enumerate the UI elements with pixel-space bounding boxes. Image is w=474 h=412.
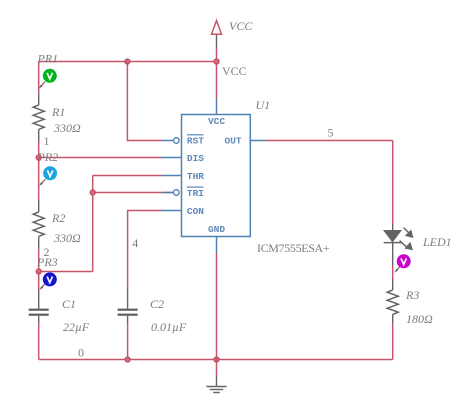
svg-text:VCC: VCC <box>208 116 225 127</box>
svg-text:ICM7555ESA+: ICM7555ESA+ <box>257 241 330 255</box>
svg-text:PR2: PR2 <box>37 150 59 164</box>
svg-text:LED1: LED1 <box>422 235 452 249</box>
junction at PR2 <box>36 155 41 160</box>
svg-text:U1: U1 <box>256 98 271 112</box>
junction GND at rail <box>214 357 219 362</box>
svg-text:OUT: OUT <box>225 136 242 147</box>
wire rail to ground <box>216 360 218 376</box>
wire PR3-C1 <box>38 272 40 290</box>
wire THR horizontal upper <box>93 175 162 177</box>
wire left rail R2-PR3 <box>38 249 40 271</box>
pin stub CON <box>162 210 182 212</box>
svg-text:TRI: TRI <box>187 188 204 199</box>
svg-text:THR: THR <box>187 171 204 182</box>
pin stub OUT <box>250 140 266 142</box>
svg-text:4: 4 <box>132 236 138 250</box>
wire LED-R3 <box>392 265 394 279</box>
svg-text:1: 1 <box>44 134 50 148</box>
wire RST branch <box>127 62 162 141</box>
probe PR2 <box>37 150 59 186</box>
wire left rail upper <box>38 62 40 94</box>
wire left rail PR2-R2 <box>38 158 40 201</box>
svg-text:RST: RST <box>187 136 204 147</box>
pin stub TRI with bubble <box>162 192 173 194</box>
IC U1 ICM7555ESA+ <box>162 98 330 255</box>
svg-text:5: 5 <box>328 126 334 140</box>
pin stub VCC <box>216 98 218 115</box>
probe PR4 on LED <box>395 254 411 272</box>
svg-text:R3: R3 <box>405 288 419 302</box>
pin stub THR <box>162 175 182 177</box>
LED LED1 <box>384 224 452 265</box>
power symbol VCC <box>212 19 254 48</box>
svg-text:180Ω: 180Ω <box>406 312 433 326</box>
svg-text:330Ω: 330Ω <box>53 231 81 245</box>
resistor R2 <box>33 201 81 250</box>
svg-text:PR1: PR1 <box>37 52 59 66</box>
wire VCC vertical <box>216 48 218 99</box>
svg-text:GND: GND <box>208 224 225 235</box>
wire DIS <box>39 157 162 159</box>
svg-text:C1: C1 <box>62 297 76 311</box>
emission arrow 1 <box>404 228 410 234</box>
svg-text:DIS: DIS <box>187 153 204 164</box>
wire top rail <box>39 61 217 63</box>
pin stub RST with bubble <box>162 140 173 142</box>
junction C2 at rail <box>125 357 130 362</box>
capacitor C1 <box>29 290 90 335</box>
probe PR1 <box>37 52 59 89</box>
svg-text:R1: R1 <box>51 105 65 119</box>
capacitor C2 <box>118 289 187 334</box>
pin stub DIS <box>162 157 182 159</box>
emission arrow 2 <box>400 241 406 247</box>
resistor R3 <box>387 279 433 326</box>
wire THR horizontal lower <box>39 271 93 273</box>
svg-text:0.01µF: 0.01µF <box>151 320 187 334</box>
junction at PR3 <box>36 269 41 274</box>
wire C2-rail <box>127 323 129 359</box>
junction at VCC <box>214 59 219 64</box>
svg-text:22µF: 22µF <box>63 320 90 334</box>
wire TRI <box>93 192 174 194</box>
svg-text:VCC: VCC <box>229 19 253 33</box>
wire R3-rail <box>392 323 394 359</box>
resistor R1 <box>33 94 81 143</box>
wire THR vertical <box>92 176 94 272</box>
wire left rail R1-PR2 <box>38 142 40 157</box>
wire bottom rail <box>39 359 393 361</box>
svg-text:PR3: PR3 <box>36 255 58 269</box>
svg-text:VCC: VCC <box>222 64 247 78</box>
svg-text:CON: CON <box>187 206 204 217</box>
wire CON <box>128 211 162 290</box>
ground <box>206 376 226 393</box>
junction at RST branch <box>125 59 130 64</box>
svg-text:C2: C2 <box>150 297 164 311</box>
probe PR3 <box>36 255 58 290</box>
svg-text:330Ω: 330Ω <box>53 121 81 135</box>
svg-text:R2: R2 <box>51 211 65 225</box>
pin stub GND <box>216 237 218 254</box>
svg-text:0: 0 <box>78 345 84 359</box>
wire OUT vertical to LED <box>392 141 394 225</box>
wire C1-rail <box>38 323 40 359</box>
junction at TRI branch <box>90 190 95 195</box>
wire GND vertical <box>216 253 218 360</box>
wire OUT <box>266 140 393 142</box>
